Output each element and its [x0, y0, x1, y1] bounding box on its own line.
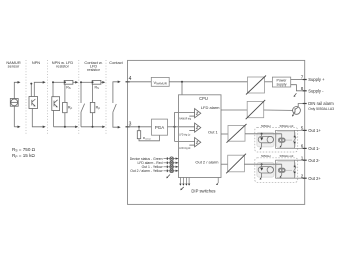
isolation barrier 3 (out 1)	[227, 124, 247, 143]
ch2 optocoupler	[258, 167, 273, 173]
svg-text:RS = 750 Ω: RS = 750 Ω	[12, 147, 36, 153]
wire VNAMUR to iso1	[169, 81, 247, 83]
cell 5: contact	[113, 82, 118, 127]
transistor box	[29, 97, 38, 109]
svg-text:Supply +: Supply +	[308, 77, 325, 82]
LED wire ticks	[166, 157, 168, 172]
resistor RP (cell4)	[90, 102, 95, 112]
terminal 3	[126, 126, 130, 128]
isolation barrier 2 (DIN alarm)	[246, 100, 266, 119]
svg-text:Out 2+: Out 2+	[308, 176, 321, 181]
svg-text:CPU: CPU	[199, 96, 208, 101]
DIN rail alarm transistor	[293, 107, 301, 116]
cell 2: NPN	[31, 82, 43, 127]
DIP switch stubs	[180, 178, 218, 185]
svg-text:Out 2 / alarm - Yellow: Out 2 / alarm - Yellow	[130, 169, 163, 173]
node on VNAMUR line	[181, 81, 183, 83]
DIN terminal	[303, 103, 307, 105]
ch2 output contact	[293, 160, 296, 178]
wire Rsense to PGA bottom	[139, 135, 159, 141]
svg-text:LFD alarm: LFD alarm	[201, 105, 220, 110]
wire term4 to VNAMUR	[128, 81, 152, 83]
wire term3 to PGA	[128, 126, 152, 128]
input option separators (dashed)	[26, 60, 106, 134]
svg-text:5050ALI: 5050ALI	[261, 124, 271, 128]
svg-text:RS: RS	[95, 86, 100, 91]
svg-text:6: 6	[301, 144, 304, 149]
ch1 sub-box right	[277, 131, 296, 147]
ch1 transistor cell	[278, 134, 285, 147]
resistor RS (cell3)	[64, 80, 73, 84]
LED pointer arrow	[167, 175, 170, 178]
resistor Rsense	[138, 127, 140, 131]
svg-text:5050ALI-A3: 5050ALI-A3	[280, 154, 294, 158]
ch1 optocoupler	[258, 136, 273, 142]
isolation barrier 1 (power)	[246, 76, 266, 95]
ch1 output contact	[293, 130, 296, 148]
svg-text:DIP switches: DIP switches	[191, 188, 215, 193]
svg-text:NPN: NPN	[32, 60, 40, 65]
svg-text:RS: RS	[66, 86, 71, 91]
ch2 input wire	[244, 163, 281, 165]
svg-text:RP: RP	[68, 106, 73, 111]
terminal 5	[303, 129, 307, 131]
input option labels	[6, 60, 123, 72]
CPU out wires	[221, 110, 247, 164]
NAMUR sensor symbol	[10, 99, 18, 107]
svg-text:resistor: resistor	[87, 67, 100, 72]
svg-text:LFD trig Hi: LFD trig Hi	[179, 146, 190, 150]
power supply box	[272, 77, 290, 87]
ch2 output bus	[275, 160, 304, 178]
comparator LFD trig Hi	[189, 138, 201, 147]
resistor RP (cell3)	[63, 102, 68, 112]
transistor box (cell3)	[52, 97, 60, 111]
DIP pointer arrow	[181, 187, 184, 189]
svg-text:Out 2-: Out 2-	[308, 158, 320, 163]
svg-text:Out 1-: Out 1-	[308, 146, 320, 151]
svg-text:Contact: Contact	[109, 60, 123, 65]
wire iso1 to power supply	[265, 81, 273, 83]
terminal 2	[303, 177, 307, 179]
svg-text:LFD trig Lo: LFD trig Lo	[179, 133, 190, 137]
terminal 4	[126, 81, 130, 83]
cell 4: contact with LFD resistors	[81, 82, 103, 127]
svg-text:5: 5	[301, 126, 304, 131]
ch2 sub-box left	[257, 163, 274, 178]
wire iso2 to DIN transistor	[264, 109, 293, 111]
CPU box	[179, 95, 222, 178]
wire PS to terminal 7	[291, 79, 305, 81]
terminal 7	[303, 79, 307, 81]
wire PGA to CPU	[168, 126, 179, 128]
cell 3: NPN with LFD resistors	[53, 82, 76, 127]
svg-text:Only 5050ALI-A3: Only 5050ALI-A3	[308, 107, 334, 111]
cell 1: NAMUR sensor	[14, 82, 17, 127]
svg-text:VNAMUR: VNAMUR	[154, 80, 167, 86]
DIN alarm wire to terminal	[298, 104, 305, 108]
ch1 sub-box left	[257, 132, 274, 147]
svg-text:NAMUR trig: NAMUR trig	[179, 117, 191, 121]
svg-text:DIN rail alarm: DIN rail alarm	[308, 101, 334, 106]
node comparator bus	[173, 126, 175, 128]
terminal 8	[303, 90, 307, 92]
ch2 transistor cell	[278, 164, 285, 177]
comparator NAMUR trig	[189, 109, 201, 118]
outer device box	[128, 60, 305, 204]
ch1 output bus	[275, 130, 304, 148]
LED wires	[164, 159, 179, 171]
svg-text:7: 7	[301, 74, 304, 79]
terminal 1	[303, 159, 307, 161]
svg-text:supply: supply	[276, 83, 286, 87]
svg-text:2: 2	[301, 174, 304, 179]
LED group strip	[169, 157, 174, 173]
svg-text:sensor: sensor	[8, 64, 20, 69]
svg-text:8: 8	[301, 86, 304, 91]
PGA box	[152, 119, 168, 135]
LED circles	[170, 157, 174, 173]
AC tick near terminal 8	[294, 93, 296, 96]
DIP stub arrowheads	[179, 183, 218, 185]
svg-text:resistor: resistor	[56, 64, 69, 69]
comparator LFD trig Lo	[189, 123, 201, 132]
svg-text:Out 1: Out 1	[208, 130, 219, 135]
terminal 6	[303, 147, 307, 149]
comparator feed bus	[175, 112, 195, 141]
svg-text:RP = 15 kΩ: RP = 15 kΩ	[12, 153, 35, 159]
svg-text:Supply -: Supply -	[308, 88, 324, 93]
VNAMUR box	[151, 77, 169, 86]
svg-text:PGA: PGA	[155, 125, 164, 130]
output channel 2 dashed box	[255, 158, 298, 183]
wire node down to CPU	[181, 82, 183, 95]
LED annotation rows	[130, 157, 163, 173]
node Rsense top	[138, 126, 140, 128]
svg-text:Out 1+: Out 1+	[308, 128, 321, 133]
ch1 input wire	[245, 133, 282, 135]
svg-text:5050ALI: 5050ALI	[261, 154, 271, 158]
output channel 1 dashed box	[255, 128, 298, 153]
svg-text:1: 1	[301, 156, 304, 161]
wire PS to terminal 8	[291, 85, 305, 91]
resistor RS (cell4)	[92, 80, 101, 84]
svg-text:RP: RP	[96, 106, 101, 111]
LED wire arrowheads into CPU	[176, 157, 179, 172]
isolation barrier 4 (out 2)	[226, 154, 246, 174]
svg-text:5050ALI-A3: 5050ALI-A3	[280, 124, 294, 128]
ch2 sub-box right	[277, 162, 296, 178]
svg-text:4: 4	[129, 76, 132, 82]
svg-text:Out 2 / alarm: Out 2 / alarm	[195, 160, 219, 165]
